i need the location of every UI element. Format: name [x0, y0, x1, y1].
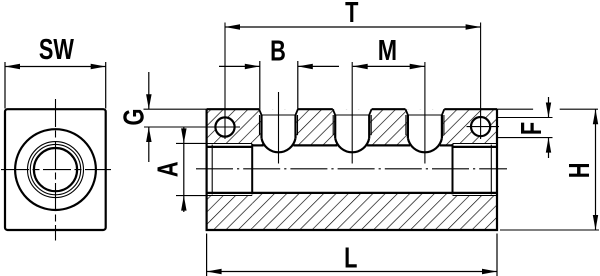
tapped port hole 2 outline — [333, 109, 335, 115]
tapped port hole 3 outline — [406, 109, 408, 115]
L extension lines — [206, 234, 208, 276]
M dimension line — [353, 65, 425, 67]
main bore top line segments — [252, 144, 263, 146]
end thread minor (counterbore) top lines — [207, 146, 253, 148]
A dimension line with outside arrows — [183, 127, 185, 212]
left thread runout line — [211, 145, 213, 195]
M extension lines / port hole 2,3 centerlines — [351, 62, 353, 164]
B dimension line with outside arrows — [219, 65, 260, 67]
sectioned block outline (left, bottom, right edges) — [207, 109, 497, 230]
left view vertical centerline — [55, 99, 57, 241]
end thread major lines (thin) right port — [453, 143, 498, 145]
bore centerline — [196, 168, 507, 170]
right mounting hole circle — [471, 117, 490, 136]
B extension lines — [259, 61, 261, 109]
tapped port hole 1 white cut — [259, 109, 298, 152]
left view chamfer circle — [30, 144, 80, 194]
svg-text:G: G — [118, 109, 150, 126]
left mounting hole circle — [215, 117, 234, 136]
T dimension line — [225, 26, 481, 28]
F dimension line with outside arrows — [548, 97, 550, 118]
tapped port hole 2 thread major lines — [332, 115, 334, 135]
tapped port hole 2 white cut — [333, 109, 372, 152]
left view horizontal centerline — [1, 169, 111, 171]
H extension lines — [494, 108, 533, 110]
hatched top band of sectioned block — [207, 109, 253, 143]
SW dimension line — [5, 66, 106, 68]
left view outer circle — [15, 129, 96, 210]
svg-text:SW: SW — [39, 34, 75, 66]
svg-text:F: F — [516, 122, 548, 135]
right mounting hole horizontal centerline — [467, 126, 500, 128]
left end view outline — [5, 109, 106, 230]
A extension lines — [176, 142, 207, 144]
svg-text:H: H — [564, 163, 596, 179]
svg-text:L: L — [344, 242, 357, 274]
hatched bottom band of sectioned block — [207, 196, 253, 231]
F extension lines — [497, 117, 553, 119]
SW extension lines — [4, 62, 6, 109]
main bore bottom line — [207, 192, 497, 194]
top face line segments between port openings — [207, 108, 260, 110]
T extension lines / mounting hole vertical centerlines — [224, 23, 226, 140]
left mounting hole horizontal centerline (G reference) — [144, 126, 240, 128]
tapped port hole 1 outline — [259, 109, 261, 115]
svg-text:T: T — [345, 0, 359, 29]
svg-text:B: B — [270, 36, 286, 68]
G dimension line with outside arrows — [148, 72, 150, 109]
left thread end vertical — [251, 144, 253, 194]
tapped port hole 1 thread major lines — [259, 115, 261, 135]
L dimension line — [207, 271, 497, 273]
H dimension line — [595, 109, 597, 230]
port hole 1 centerline — [278, 92, 280, 164]
left view thread major circle — [28, 142, 84, 198]
tapped port hole 3 white cut — [406, 109, 445, 152]
right thread runout line — [490, 145, 492, 195]
svg-text:M: M — [378, 33, 397, 66]
end thread major lines (thin) left port — [207, 143, 253, 145]
svg-text:A: A — [153, 161, 185, 177]
left view bore circle — [34, 148, 77, 191]
G dimension upper extension line (top face) — [144, 108, 207, 110]
tapped port hole 3 thread major lines — [405, 115, 407, 135]
right thread end vertical — [452, 144, 454, 194]
